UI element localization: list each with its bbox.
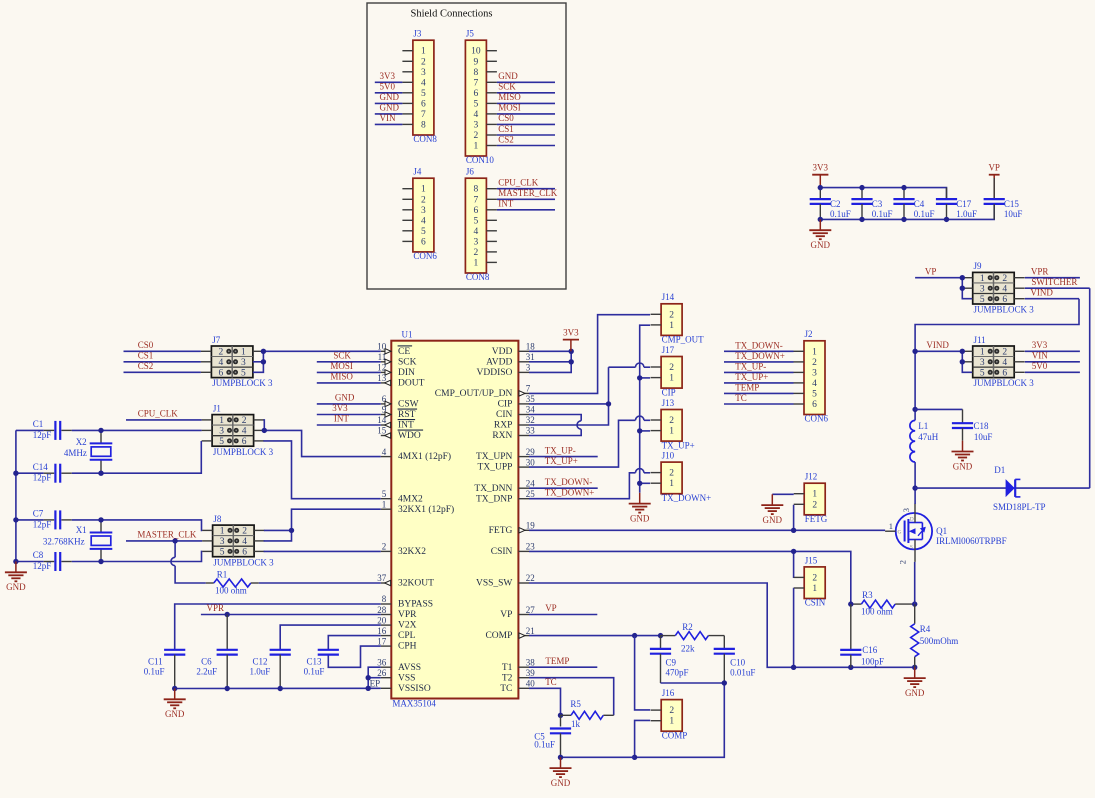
wire J12 pin2 tap xyxy=(793,505,795,531)
svg-text:CON8: CON8 xyxy=(413,134,437,144)
wire net CS1 to J7 xyxy=(124,361,201,363)
svg-text:RST: RST xyxy=(398,410,416,420)
wire C14/X2 bottom to J1 pin5 xyxy=(16,441,201,473)
svg-text:0.1uF: 0.1uF xyxy=(830,209,851,219)
svg-text:1: 1 xyxy=(669,374,674,384)
svg-text:2: 2 xyxy=(1002,348,1007,358)
capacitor C12 1.0uF xyxy=(250,650,291,689)
svg-text:0.1uF: 0.1uF xyxy=(144,667,165,677)
U1 pin 23 CSIN xyxy=(491,542,536,557)
svg-text:MASTER_CLK: MASTER_CLK xyxy=(498,188,558,198)
wire J12 pin1 to ground xyxy=(772,493,793,495)
wire VIND bus xyxy=(915,299,1079,488)
svg-text:COMP: COMP xyxy=(662,730,688,740)
wire J8 pin6 to U1 32KX2 xyxy=(264,550,381,552)
capacitor C1 12pF xyxy=(33,419,60,440)
svg-text:1: 1 xyxy=(980,274,985,284)
svg-text:4: 4 xyxy=(1002,358,1007,368)
svg-text:21: 21 xyxy=(526,626,535,636)
svg-text:1: 1 xyxy=(474,142,479,152)
svg-text:3: 3 xyxy=(474,120,479,130)
svg-text:TX_DOWN+: TX_DOWN+ xyxy=(545,487,595,497)
svg-text:20: 20 xyxy=(377,615,387,625)
capacitor C14 plates xyxy=(55,464,60,483)
svg-text:8: 8 xyxy=(421,120,426,130)
junction J9 left row1 xyxy=(960,275,965,280)
svg-text:CIP: CIP xyxy=(662,387,676,397)
svg-text:CPU_CLK: CPU_CLK xyxy=(498,178,539,188)
svg-text:JUMPBLOCK 3: JUMPBLOCK 3 xyxy=(974,305,1035,315)
capacitor C3 0.1uF xyxy=(851,188,892,220)
capacitor C8 plates xyxy=(55,552,60,571)
svg-text:TX_UP+: TX_UP+ xyxy=(545,456,578,466)
capacitor C2 plates xyxy=(810,199,831,204)
svg-text:J17: J17 xyxy=(662,345,675,355)
U1 pin 32 RXP xyxy=(494,415,535,430)
U1 pin 6 CSW xyxy=(381,394,419,410)
svg-text:4: 4 xyxy=(242,537,247,547)
capacitor C6 2.2uF xyxy=(196,650,237,689)
wire left crystal ground bus xyxy=(15,430,17,561)
svg-text:2.2uF: 2.2uF xyxy=(196,667,217,677)
svg-text:3: 3 xyxy=(526,363,531,373)
wire net GND J3.6 xyxy=(375,102,403,104)
wire net CS2 J5 xyxy=(497,145,555,147)
jumper block J9 JUMPBLOCK 3 xyxy=(962,261,1034,314)
junction AVDD xyxy=(569,359,574,364)
svg-text:3: 3 xyxy=(901,508,911,512)
svg-text:J9: J9 xyxy=(974,261,983,271)
junction AVSS/VSS xyxy=(366,675,371,680)
connector J2 CON6 xyxy=(794,329,829,424)
wire net MISO J5 xyxy=(497,102,555,104)
junction MASTER_CLK xyxy=(172,538,177,543)
junction bottom rail C3 xyxy=(859,217,864,222)
wire net CSIN U1 to R3/C16 xyxy=(529,551,851,604)
svg-text:DIN: DIN xyxy=(398,368,415,378)
wire net CS1 J5 xyxy=(497,134,555,136)
svg-text:R5: R5 xyxy=(570,699,581,709)
svg-text:R1: R1 xyxy=(217,570,228,580)
svg-text:TC: TC xyxy=(735,393,747,403)
U1 pin 19 FETG xyxy=(489,521,536,536)
capacitor C11 plates xyxy=(164,650,185,655)
svg-text:29: 29 xyxy=(526,447,536,457)
wire J15 pin2 tap xyxy=(793,551,795,578)
transistor Q1 IRLML0060TRPBF xyxy=(885,504,1007,565)
U1 pin 7 CMP_OUT/UP_DN xyxy=(435,384,531,399)
junction C14/X2 xyxy=(98,471,103,476)
wire CPL to C13 top xyxy=(328,636,381,650)
svg-text:2: 2 xyxy=(474,131,479,141)
ground left crystal bus xyxy=(5,562,27,593)
svg-text:2: 2 xyxy=(1002,274,1007,284)
svg-text:32KOUT: 32KOUT xyxy=(398,579,434,589)
svg-text:VIN: VIN xyxy=(380,113,396,123)
wire net TX_DOWN+ to J10 pin2 xyxy=(529,469,650,499)
svg-text:R4: R4 xyxy=(920,624,931,634)
U1 pin 13 DOUT xyxy=(377,373,424,388)
svg-text:2: 2 xyxy=(421,195,426,205)
capacitor C6 plates xyxy=(217,650,238,655)
jumper block J7 JUMPBLOCK 3 xyxy=(201,335,273,388)
svg-text:VIND: VIND xyxy=(926,340,949,350)
ground C5 xyxy=(550,757,572,788)
svg-text:6: 6 xyxy=(1002,295,1007,305)
junction L1 top / C18 xyxy=(912,407,917,412)
shield connections border box xyxy=(367,3,566,289)
svg-text:0.1uF: 0.1uF xyxy=(534,740,555,750)
svg-text:2: 2 xyxy=(242,527,247,537)
svg-text:18: 18 xyxy=(526,342,536,352)
svg-text:VP: VP xyxy=(925,266,937,276)
junction J7 right row1 xyxy=(261,349,266,354)
junction TC/R5/C5 xyxy=(558,713,563,718)
resistor R5 1k xyxy=(561,699,604,729)
wire CMP_OUT to J14 pin2 xyxy=(529,315,650,394)
svg-text:V2X: V2X xyxy=(398,621,417,631)
svg-text:3V3: 3V3 xyxy=(563,327,579,337)
U1 pin 16 CPL xyxy=(377,626,415,641)
U1 pin 33 RXN xyxy=(492,426,535,441)
svg-text:100pF: 100pF xyxy=(861,657,884,667)
svg-text:C9: C9 xyxy=(666,658,677,668)
svg-text:22k: 22k xyxy=(681,644,695,654)
svg-text:GND: GND xyxy=(811,240,831,250)
svg-text:1: 1 xyxy=(474,258,479,268)
wire net GND J3.7 xyxy=(375,113,403,115)
svg-text:4: 4 xyxy=(474,227,479,237)
svg-text:1: 1 xyxy=(219,416,224,426)
wire J7 pins 1/3/5 tie to U1 CE xyxy=(253,351,381,372)
svg-text:12pF: 12pF xyxy=(33,519,52,529)
svg-text:J8: J8 xyxy=(213,514,222,524)
wire net TX_UP- stub xyxy=(529,456,598,458)
svg-text:CSIN: CSIN xyxy=(491,547,513,557)
connector J15 CSIN xyxy=(794,555,826,607)
svg-text:MISO: MISO xyxy=(330,372,353,382)
svg-text:6: 6 xyxy=(421,237,426,247)
junction COMP C9 xyxy=(658,633,663,638)
svg-text:C7: C7 xyxy=(33,509,44,519)
svg-text:1.0uF: 1.0uF xyxy=(250,667,271,677)
wire VDD/AVDD/VDDISO tie to 3V3 xyxy=(529,351,571,372)
wire net SWITCHER from J9 pin4 xyxy=(1025,287,1090,289)
svg-text:T1: T1 xyxy=(502,663,513,673)
junction C1/X2 xyxy=(98,428,103,433)
svg-text:VP: VP xyxy=(500,610,512,620)
connector J10 TX_DOWN+ xyxy=(651,451,712,503)
svg-text:J3: J3 xyxy=(413,29,422,39)
svg-text:VSS: VSS xyxy=(398,673,415,683)
svg-text:J10: J10 xyxy=(662,451,675,461)
capacitor C18 plates xyxy=(952,423,973,428)
svg-text:MOSI: MOSI xyxy=(498,103,521,113)
ground C18 xyxy=(952,441,974,472)
wire Q1 drain bus xyxy=(914,488,916,504)
svg-text:6: 6 xyxy=(242,548,247,558)
wire J14/J17/J13/J10 pin1 ground bus xyxy=(640,325,650,493)
wire net VPR xyxy=(201,614,381,616)
svg-text:JUMPBLOCK 3: JUMPBLOCK 3 xyxy=(213,557,274,567)
wire CIP to J17 pin2 and RXP xyxy=(529,363,650,425)
junction rail R4 xyxy=(912,665,917,670)
svg-text:12pF: 12pF xyxy=(33,561,52,571)
svg-text:J7: J7 xyxy=(212,335,221,345)
svg-text:22: 22 xyxy=(526,573,535,583)
wire J15 pin1 down to rail xyxy=(793,589,795,668)
svg-text:VSSISO: VSSISO xyxy=(398,684,431,694)
junction C5 gnd xyxy=(558,755,563,760)
crystal X1 symbol xyxy=(90,533,113,549)
junction rail C12 xyxy=(278,686,283,691)
svg-text:2: 2 xyxy=(669,416,674,426)
svg-text:2: 2 xyxy=(669,363,674,373)
svg-text:7: 7 xyxy=(421,110,426,120)
power 3V3 at U1 xyxy=(563,327,579,351)
svg-text:X1: X1 xyxy=(76,525,87,535)
junction bus C7 xyxy=(13,517,18,522)
svg-text:4MX2: 4MX2 xyxy=(398,494,423,504)
U1 pin 15 WDO xyxy=(377,426,423,441)
svg-text:GND: GND xyxy=(905,688,925,698)
wire net VPR from J9 pin2 xyxy=(1025,277,1080,279)
jumper block J8 JUMPBLOCK 3 xyxy=(202,514,274,567)
svg-text:7: 7 xyxy=(474,195,479,205)
svg-text:16: 16 xyxy=(377,626,387,636)
svg-text:6: 6 xyxy=(812,400,817,410)
wire J16 pin1 to rail xyxy=(635,720,651,757)
svg-text:30: 30 xyxy=(526,457,536,467)
svg-text:3: 3 xyxy=(219,427,224,437)
svg-text:2: 2 xyxy=(421,57,426,67)
wire net TC to R5/C5 xyxy=(529,688,561,715)
wire net TEMP stub xyxy=(529,666,597,668)
junction top rail C2 xyxy=(818,185,823,190)
ground J-column xyxy=(629,493,651,524)
svg-text:CSIN: CSIN xyxy=(805,598,826,608)
wire net TEMP J2 xyxy=(724,392,794,394)
svg-text:GND: GND xyxy=(498,71,518,81)
svg-text:C3: C3 xyxy=(872,199,883,209)
svg-text:AVDD: AVDD xyxy=(486,357,512,367)
svg-text:2: 2 xyxy=(812,573,817,583)
wire net SCK to U1 xyxy=(317,361,381,363)
svg-text:J12: J12 xyxy=(805,472,818,482)
jumper block J11 JUMPBLOCK 3 xyxy=(962,335,1034,388)
svg-text:5: 5 xyxy=(421,227,426,237)
svg-text:VP: VP xyxy=(988,163,1000,173)
svg-text:JUMPBLOCK 3: JUMPBLOCK 3 xyxy=(213,447,274,457)
svg-text:CMP_OUT/UP_DN: CMP_OUT/UP_DN xyxy=(435,389,513,399)
capacitor C13 0.1uF xyxy=(304,650,339,677)
svg-text:C18: C18 xyxy=(974,421,990,431)
svg-text:31: 31 xyxy=(526,352,535,362)
svg-text:TX_UP-: TX_UP- xyxy=(545,445,576,455)
svg-text:9: 9 xyxy=(474,57,479,67)
ground R4 xyxy=(904,667,926,698)
svg-text:CS2: CS2 xyxy=(138,361,154,371)
svg-text:C17: C17 xyxy=(956,199,972,209)
svg-text:GND: GND xyxy=(953,461,973,471)
svg-text:3: 3 xyxy=(980,284,985,294)
U1 pin 12 DIN xyxy=(377,363,415,378)
U1 pin 22 VSS_SW xyxy=(476,573,535,588)
resistor R4 500mOhm xyxy=(911,604,959,667)
connector J3 CON8 xyxy=(402,29,437,145)
wire net 3V3 from J11 pin2 xyxy=(1025,350,1080,352)
svg-text:2: 2 xyxy=(474,248,479,258)
svg-text:SMD18PL-TP: SMD18PL-TP xyxy=(993,502,1046,512)
svg-text:MOSI: MOSI xyxy=(330,361,353,371)
resistor R3 100 ohm xyxy=(851,590,915,616)
svg-text:TX_DOWN-: TX_DOWN- xyxy=(735,341,783,351)
wire net MOSI J5 xyxy=(497,113,555,115)
wire T2 to R5 right xyxy=(529,678,614,716)
connector J17 CIP xyxy=(651,345,683,397)
U1 pin 34 CIN xyxy=(496,405,535,420)
svg-text:4MHz: 4MHz xyxy=(64,448,87,458)
svg-text:FETG: FETG xyxy=(805,514,828,524)
wire net TC J2 xyxy=(724,403,794,405)
U1 pin 29 TX_UPN xyxy=(476,447,535,462)
svg-text:GND: GND xyxy=(630,513,650,523)
U1 pin 39 T2 xyxy=(502,668,535,683)
svg-text:TEMP: TEMP xyxy=(735,383,759,393)
svg-text:VPR: VPR xyxy=(1031,266,1049,276)
connector J4 CON6 xyxy=(402,167,437,262)
svg-text:CS1: CS1 xyxy=(498,124,514,134)
wire CIN to RXN (hops RXP) xyxy=(529,415,581,436)
svg-text:3V3: 3V3 xyxy=(332,403,348,413)
crystal X2 symbol xyxy=(90,443,113,459)
svg-text:C11: C11 xyxy=(148,657,163,667)
wire C18 branch xyxy=(915,408,962,410)
svg-text:47uH: 47uH xyxy=(918,432,939,442)
svg-text:1: 1 xyxy=(421,185,426,195)
wire net COMP xyxy=(529,635,661,637)
svg-text:100 ohm: 100 ohm xyxy=(215,586,247,596)
svg-text:CS0: CS0 xyxy=(498,113,514,123)
U1 pin 27 VP xyxy=(500,605,535,620)
svg-text:100 ohm: 100 ohm xyxy=(861,607,893,617)
svg-text:CON10: CON10 xyxy=(466,155,495,165)
wire net CS0 to J7 xyxy=(124,350,201,352)
svg-text:0.1uF: 0.1uF xyxy=(304,667,325,677)
wire net VIND from J9 pin6 xyxy=(1025,298,1079,300)
svg-text:C2: C2 xyxy=(830,199,841,209)
svg-text:JUMPBLOCK 3: JUMPBLOCK 3 xyxy=(974,378,1035,388)
svg-text:13: 13 xyxy=(377,373,387,383)
svg-text:FETG: FETG xyxy=(489,526,513,536)
svg-text:GND: GND xyxy=(6,582,26,592)
junction CIP/RXP xyxy=(606,401,611,406)
svg-text:TX_UP+: TX_UP+ xyxy=(735,372,768,382)
capacitor C10 0.01uF xyxy=(714,636,756,683)
capacitor C11 0.1uF xyxy=(144,650,186,689)
svg-text:TX_DOWN+: TX_DOWN+ xyxy=(735,351,785,361)
junction J9 left row2 xyxy=(960,286,965,291)
svg-text:CMP_OUT: CMP_OUT xyxy=(662,335,705,345)
U1 pin 40 TC xyxy=(500,679,535,694)
capacitor C10 plates xyxy=(714,649,735,654)
svg-text:TX_DOWN-: TX_DOWN- xyxy=(545,477,593,487)
svg-text:GND: GND xyxy=(380,103,400,113)
U1 pin 2 32KX2 xyxy=(381,542,426,557)
wire net 5V0 J3.5 xyxy=(375,92,403,94)
junction CSIN J15 xyxy=(791,549,796,554)
U1 pin 31 AVDD xyxy=(486,352,535,367)
svg-text:7: 7 xyxy=(474,78,479,88)
wire net TX_DOWN- J2 xyxy=(724,350,794,352)
svg-text:5: 5 xyxy=(220,548,225,558)
svg-text:TX_UPN: TX_UPN xyxy=(476,452,513,462)
svg-text:TEMP: TEMP xyxy=(545,656,569,666)
svg-text:SCK: SCK xyxy=(398,357,417,367)
svg-text:1: 1 xyxy=(421,47,426,57)
svg-text:12pF: 12pF xyxy=(33,430,52,440)
svg-text:5: 5 xyxy=(474,216,479,226)
capacitor C5 plates xyxy=(550,729,571,734)
svg-text:J11: J11 xyxy=(974,335,986,345)
capacitor C12 plates xyxy=(270,650,291,655)
svg-text:SCK: SCK xyxy=(498,82,516,92)
junction J1 right row2 xyxy=(262,428,267,433)
svg-text:MASTER_CLK: MASTER_CLK xyxy=(137,529,197,539)
junction bottom rail C2 xyxy=(818,217,823,222)
capacitor C8 12pF xyxy=(33,550,60,571)
U1 pin 25 TX_DNP xyxy=(476,489,535,504)
svg-text:5: 5 xyxy=(980,369,985,379)
svg-text:3: 3 xyxy=(812,368,817,378)
svg-text:MISO: MISO xyxy=(498,92,521,102)
U1 pin 11 SCK xyxy=(378,352,417,367)
wire C9/C10 bottoms xyxy=(635,683,725,757)
svg-text:RXP: RXP xyxy=(494,421,512,431)
svg-text:1: 1 xyxy=(812,347,817,357)
wire net TX_DOWN- stub xyxy=(529,487,598,489)
svg-text:5: 5 xyxy=(382,489,387,499)
svg-text:T2: T2 xyxy=(502,673,513,683)
svg-text:CPU_CLK: CPU_CLK xyxy=(138,409,179,419)
svg-text:VIND: VIND xyxy=(1030,287,1053,297)
svg-text:C8: C8 xyxy=(33,550,44,560)
svg-text:5V0: 5V0 xyxy=(380,82,396,92)
svg-text:CON6: CON6 xyxy=(413,251,437,261)
resistor R1 100 ohm xyxy=(206,570,381,596)
U1 pin 17 CPH xyxy=(377,636,416,651)
svg-text:34: 34 xyxy=(526,405,536,415)
svg-text:GND: GND xyxy=(551,778,571,788)
junction top rail C4 xyxy=(901,185,906,190)
junction rail J16 xyxy=(632,755,637,760)
svg-text:C13: C13 xyxy=(306,657,322,667)
capacitor C16 100pF xyxy=(840,604,884,667)
svg-text:1: 1 xyxy=(669,321,674,331)
capacitor C18 10uF xyxy=(952,409,993,441)
svg-text:GND: GND xyxy=(763,515,783,525)
svg-text:C6: C6 xyxy=(201,657,212,667)
wire net SCK J5 xyxy=(497,92,555,94)
capacitor C5 0.1uF xyxy=(534,715,571,757)
junction VSS rail xyxy=(366,686,371,691)
crystal X2 4MHz xyxy=(64,430,112,473)
svg-text:L1: L1 xyxy=(918,421,928,431)
capacitor C14 12pF xyxy=(33,462,60,483)
capacitor C17 1.0uF xyxy=(936,188,977,220)
wire J8 pin2/pin4 to U1 32KX1 xyxy=(264,509,381,541)
wire VSS_SW to bottom rail xyxy=(529,583,915,667)
